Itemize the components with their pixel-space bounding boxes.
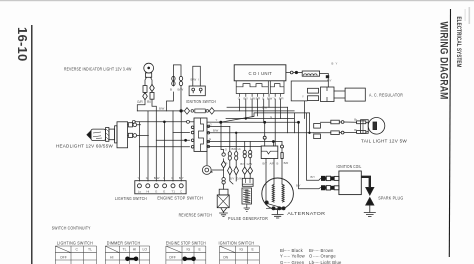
svg-text:B/W: B/W	[262, 105, 268, 109]
svg-text:R/l: R/l	[147, 100, 151, 104]
svg-text:Light Blue: Light Blue	[321, 260, 343, 264]
svg-text:B/W: B/W	[154, 176, 160, 180]
svg-text:ALTERNATOR: ALTERNATOR	[287, 211, 326, 216]
svg-text:Y: Y	[336, 62, 338, 66]
svg-text:B/W: B/W	[178, 88, 184, 92]
svg-text:SWITCH CONTINUITY: SWITCH CONTINUITY	[52, 226, 91, 231]
svg-text:C D I UNIT: C D I UNIT	[249, 71, 273, 76]
svg-text:B/Y: B/Y	[179, 176, 184, 180]
svg-text:ON: ON	[223, 255, 229, 259]
svg-text:Y: Y	[138, 176, 140, 180]
svg-text:B/Y: B/Y	[240, 162, 245, 166]
svg-text:HEADLIGHT 12V 60/55W: HEADLIGHT 12V 60/55W	[56, 144, 113, 149]
svg-text:B/Y: B/Y	[244, 97, 249, 101]
svg-text:Y: Y	[273, 97, 275, 101]
svg-text:ENGINE STOP SWITCH: ENGINE STOP SWITCH	[157, 196, 203, 201]
svg-text:LIGHTING SWITCH: LIGHTING SWITCH	[57, 240, 93, 245]
svg-text:REVERSE INDICATOR LIGHT 12V: REVERSE INDICATOR LIGHT 12V 3.4W	[64, 67, 132, 72]
svg-text:G: G	[262, 97, 264, 101]
svg-text:Yellow: Yellow	[292, 253, 306, 258]
svg-text:IG: IG	[187, 248, 191, 252]
svg-text:B/Y: B/Y	[327, 79, 332, 83]
svg-text:IG: IG	[240, 248, 244, 252]
svg-text:B: B	[170, 88, 172, 92]
svg-text:-----: -----	[313, 260, 320, 264]
svg-text:G/R: G/R	[137, 100, 143, 104]
svg-text:ENGINE STOP SWITCH: ENGINE STOP SWITCH	[166, 240, 206, 245]
svg-text:Lb: Lb	[238, 147, 242, 151]
svg-text:B/W: B/W	[213, 129, 219, 133]
svg-text:B/Y: B/Y	[263, 161, 268, 165]
svg-text:E: E	[163, 190, 165, 194]
svg-text:ELECTRICAL SYSTEM: ELECTRICAL SYSTEM	[455, 17, 462, 68]
svg-text:B/W: B/W	[191, 78, 197, 82]
svg-text:LO: LO	[143, 248, 148, 252]
svg-text:T1: T1	[172, 190, 176, 194]
svg-text:IGNITION SWITCH: IGNITION SWITCH	[219, 240, 255, 245]
svg-text:TAIL LIGHT 12V 5W: TAIL LIGHT 12V 5W	[361, 138, 408, 143]
svg-text:-----: -----	[313, 253, 320, 258]
svg-text:B/R: B/R	[256, 97, 261, 101]
svg-text:16-10: 16-10	[15, 27, 30, 62]
svg-text:B/R: B/R	[279, 97, 284, 101]
svg-text:Orange: Orange	[321, 253, 337, 258]
svg-text:HI: HI	[133, 248, 136, 252]
svg-text:B/W: B/W	[267, 97, 273, 101]
svg-text:TL: TL	[88, 248, 92, 252]
svg-text:HI: HI	[110, 255, 113, 259]
svg-text:Y: Y	[280, 253, 283, 258]
svg-text:Y: Y	[302, 95, 304, 99]
svg-text:B/W: B/W	[159, 106, 165, 110]
svg-text:B/Y: B/Y	[230, 177, 235, 181]
svg-text:L/W: L/W	[250, 97, 255, 101]
svg-text:-----: -----	[284, 260, 291, 264]
svg-text:OFF: OFF	[169, 255, 176, 259]
svg-text:IGNITION SWITCH: IGNITION SWITCH	[186, 99, 216, 104]
svg-text:Lo: Lo	[138, 190, 142, 194]
svg-text:REVERSE SWITCH: REVERSE SWITCH	[179, 212, 212, 217]
svg-text:G/W: G/W	[247, 162, 253, 166]
svg-text:C: C	[238, 97, 240, 101]
svg-text:-----: -----	[284, 253, 291, 258]
svg-text:TL: TL	[123, 248, 127, 252]
svg-text:OFF: OFF	[60, 255, 67, 259]
svg-text:B: B	[332, 62, 334, 66]
svg-text:G/W: G/W	[236, 177, 242, 181]
svg-text:Green: Green	[292, 260, 305, 264]
svg-text:A/R: A/R	[270, 161, 275, 165]
svg-text:SPARK PLUG: SPARK PLUG	[378, 196, 403, 201]
svg-text:LIGHTING SWITCH: LIGHTING SWITCH	[115, 196, 147, 201]
svg-text:B/Y: B/Y	[296, 183, 301, 187]
svg-text:IGNITION COIL: IGNITION COIL	[337, 164, 362, 169]
svg-text:Y: Y	[216, 118, 218, 122]
svg-text:B/R: B/R	[232, 147, 237, 151]
svg-text:B/R: B/R	[284, 161, 289, 165]
svg-text:G: G	[270, 115, 272, 119]
svg-text:PULSE GENERATOR: PULSE GENERATOR	[228, 216, 268, 221]
svg-text:DIMMER SWITCH: DIMMER SWITCH	[107, 240, 141, 245]
svg-text:A. C. REGULATOR: A. C. REGULATOR	[369, 93, 403, 98]
svg-text:B: B	[277, 161, 279, 165]
svg-text:B/Y: B/Y	[311, 175, 316, 179]
svg-text:Hi: Hi	[146, 190, 149, 194]
svg-text:G: G	[225, 148, 227, 152]
svg-text:WIRING DIAGRAM: WIRING DIAGRAM	[437, 22, 449, 100]
